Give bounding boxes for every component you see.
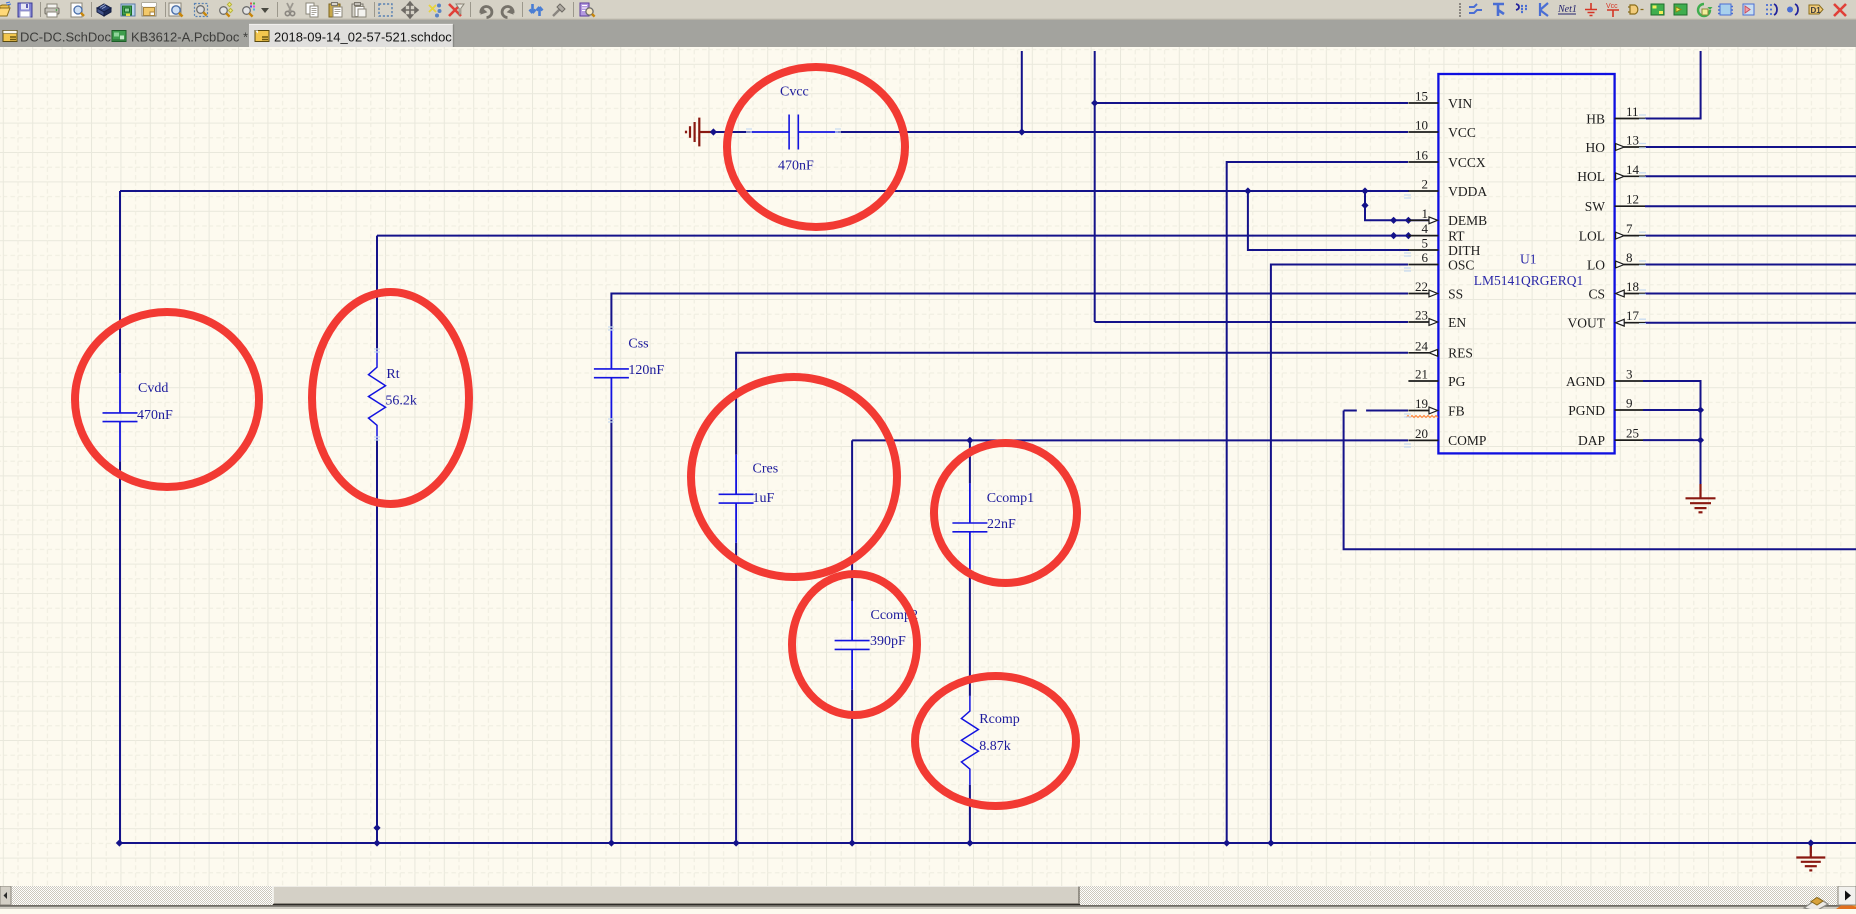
svg-text:19: 19 xyxy=(1415,396,1428,411)
svg-text:Vcc: Vcc xyxy=(1606,3,1618,10)
icon device sheet xyxy=(1698,4,1713,16)
wire right ground stub xyxy=(1810,843,1812,853)
icon pcb doc xyxy=(121,4,135,16)
wire DITH branch from VDDA xyxy=(1248,191,1409,250)
wire EN horizontal xyxy=(1095,321,1408,323)
pin 8 LO output arrow xyxy=(1616,261,1625,268)
pin 1 DEMB xyxy=(1408,219,1429,221)
icon place part harness xyxy=(1540,3,1548,16)
node bus-Cres junction xyxy=(733,839,740,846)
svg-text:LO: LO xyxy=(1587,257,1605,272)
node COMP junction xyxy=(966,437,973,444)
svg-text:7: 7 xyxy=(1626,221,1633,236)
red markup circle around Ccomp2 xyxy=(792,574,917,715)
pin 7 LOL output arrow xyxy=(1616,232,1625,239)
pin 19 FB input arrow xyxy=(1429,407,1438,414)
resistor Rt xyxy=(369,350,386,440)
icon differential pair xyxy=(1809,5,1823,15)
wire COMP horizontal xyxy=(852,439,1408,441)
icon zoom pixels xyxy=(243,3,255,17)
svg-text:KB3612-A.PcbDoc *: KB3612-A.PcbDoc * xyxy=(131,30,248,45)
ground AGND below IC xyxy=(1686,484,1716,512)
svg-text:VCCX: VCCX xyxy=(1448,155,1486,170)
svg-text:HO: HO xyxy=(1586,140,1606,155)
svg-text:PG: PG xyxy=(1448,374,1466,389)
icon harness entry xyxy=(1743,4,1754,15)
pin 20 COMP xyxy=(1408,439,1438,441)
red markup circle around Rcomp xyxy=(915,676,1076,806)
pin 18 CS input arrow xyxy=(1616,290,1625,297)
svg-text:12: 12 xyxy=(1626,192,1639,207)
pin 23 EN input arrow xyxy=(1429,319,1438,326)
svg-text:Rt: Rt xyxy=(386,367,399,382)
node bus-Cvdd junction xyxy=(116,839,123,846)
svg-text:470nF: 470nF xyxy=(778,159,814,174)
wire Rt vertical xyxy=(376,236,378,843)
pin 18 CS xyxy=(1624,293,1645,295)
icon copy xyxy=(306,3,318,17)
svg-text:PGND: PGND xyxy=(1568,403,1605,418)
svg-text:RES: RES xyxy=(1448,346,1473,361)
icon paste special xyxy=(352,3,366,18)
node RT wire dots xyxy=(1390,232,1397,239)
svg-text:21: 21 xyxy=(1415,367,1428,382)
svg-text:6: 6 xyxy=(1422,250,1429,265)
icon sheet entry xyxy=(1674,4,1687,15)
svg-text:Cvdd: Cvdd xyxy=(138,381,168,396)
svg-text:SW: SW xyxy=(1585,199,1606,214)
icon zoom document xyxy=(169,3,183,17)
capacitor Cvcc xyxy=(750,115,838,150)
wire CS to right edge xyxy=(1645,293,1856,295)
pin 9 PGND xyxy=(1615,409,1643,411)
icon break wire xyxy=(429,4,442,18)
node bus-Css junction xyxy=(608,839,615,846)
svg-text:Cres: Cres xyxy=(753,461,779,476)
icon open xyxy=(0,2,11,16)
svg-text:120nF: 120nF xyxy=(628,363,664,378)
bottom-right panel icons xyxy=(1804,898,1828,912)
node Rt wire-end dot above bus xyxy=(373,824,380,831)
wire HO to right edge xyxy=(1645,146,1856,148)
wire RT horizontal xyxy=(377,235,1408,237)
icon redo xyxy=(502,7,514,18)
pin direction triangles xyxy=(1429,144,1624,414)
IC designator and part number xyxy=(1474,251,1584,288)
svg-text:56.2k: 56.2k xyxy=(385,394,417,409)
svg-text:Cvcc: Cvcc xyxy=(780,85,809,100)
icon move xyxy=(402,2,418,18)
svg-text:HOL: HOL xyxy=(1577,169,1605,184)
icon harness connector xyxy=(1718,4,1733,15)
svg-text:11: 11 xyxy=(1626,104,1639,119)
svg-text:VIN: VIN xyxy=(1448,96,1472,111)
wire RES horizontal and Cres vertical xyxy=(736,353,1408,843)
icon wiring tool xyxy=(553,4,565,16)
resistor Rcomp xyxy=(961,696,978,785)
pin 21 PG xyxy=(1408,380,1438,382)
wire VOUT to right edge xyxy=(1645,322,1856,324)
pin 17 VOUT input arrow xyxy=(1616,319,1625,326)
wire Cvdd vertical xyxy=(119,191,121,843)
wire HB to top xyxy=(1645,51,1701,119)
svg-text:COMP: COMP xyxy=(1448,433,1486,448)
svg-text:9: 9 xyxy=(1626,396,1633,411)
svg-text:470nF: 470nF xyxy=(137,408,173,423)
icon print preview xyxy=(71,3,84,17)
svg-text:25: 25 xyxy=(1626,426,1639,441)
pin 7 LOL xyxy=(1624,235,1645,237)
tab 1 icon schdoc xyxy=(3,31,17,42)
svg-text:VDDA: VDDA xyxy=(1448,184,1487,199)
pin 6 OSC xyxy=(1408,264,1438,266)
pale blue hotspot marks xyxy=(374,115,1646,447)
svg-text:DEMB: DEMB xyxy=(1448,213,1487,228)
node bus-Ccomp2 junction xyxy=(849,839,856,846)
wire VCCX horizontal and vertical to ground bus xyxy=(1227,162,1408,843)
icon device view xyxy=(97,4,111,16)
pin 5 DITH xyxy=(1408,249,1438,251)
icon signal source brace xyxy=(1787,4,1798,15)
svg-text:24: 24 xyxy=(1415,338,1429,353)
node DAP junction xyxy=(1697,437,1704,444)
pin 25 DAP xyxy=(1615,439,1643,441)
svg-text:2: 2 xyxy=(1422,177,1429,192)
pin 1 DEMB input arrow xyxy=(1429,217,1438,224)
wire Ccomp2 vertical xyxy=(851,440,853,843)
svg-text:SS: SS xyxy=(1448,286,1463,301)
ground at right end of bus xyxy=(1796,845,1825,870)
svg-text:390pF: 390pF xyxy=(870,634,906,649)
wire SW to right edge xyxy=(1645,205,1856,207)
icon dropdown arrow xyxy=(261,8,269,13)
pin 24 RES output arrow xyxy=(1429,349,1438,356)
wire LO to right edge xyxy=(1645,264,1856,266)
svg-text:8: 8 xyxy=(1626,250,1633,265)
icon place signal harness xyxy=(1516,4,1527,12)
application toolbar xyxy=(0,0,1856,20)
left arrow button xyxy=(0,886,11,905)
wire ground bus horizontal xyxy=(119,842,1856,844)
svg-text:LOL: LOL xyxy=(1579,228,1605,243)
svg-text:HB: HB xyxy=(1586,111,1605,126)
svg-text:18: 18 xyxy=(1626,279,1639,294)
svg-text:AGND: AGND xyxy=(1566,374,1605,389)
svg-text:13: 13 xyxy=(1626,133,1639,148)
pin 2 VDDA xyxy=(1408,190,1438,192)
svg-text:10: 10 xyxy=(1415,118,1428,133)
icon cut xyxy=(285,3,294,16)
icon updown hierarchy xyxy=(530,4,543,16)
icon browse library xyxy=(580,3,595,17)
capacitor Cres xyxy=(719,455,754,543)
svg-text:Net1: Net1 xyxy=(1557,4,1577,15)
wire OSC horizontal and vertical to ground bus xyxy=(1271,265,1408,844)
capacitor Ccomp2 xyxy=(835,601,870,690)
bottom status strip xyxy=(0,905,1856,907)
pin 23 EN xyxy=(1408,321,1429,323)
svg-text:Rcomp: Rcomp xyxy=(979,712,1019,727)
pin 14 HOL output arrow xyxy=(1616,173,1625,180)
svg-text:4: 4 xyxy=(1422,221,1429,236)
svg-text:VOUT: VOUT xyxy=(1568,316,1606,331)
node bus-Rt junction xyxy=(373,839,380,846)
scrollbar thumb xyxy=(273,886,1079,904)
wire VDDA horizontal xyxy=(120,190,1409,192)
node VIN tap xyxy=(1091,99,1098,106)
right group separator dots xyxy=(1459,3,1461,17)
icon bus entry brace xyxy=(1766,4,1777,15)
wire VCC net horizontal xyxy=(711,131,1408,133)
pin 13 HO output arrow xyxy=(1616,144,1625,151)
icon place gnd xyxy=(1585,3,1597,16)
icon no erc xyxy=(1834,4,1846,16)
icon zoom selected xyxy=(220,2,233,16)
svg-text:5: 5 xyxy=(1422,236,1429,251)
pin 13 HO xyxy=(1624,146,1645,148)
pin 11 HB xyxy=(1615,118,1645,120)
pin 8 LO xyxy=(1624,264,1645,266)
node DEMB wire dots xyxy=(1390,217,1397,224)
svg-text:LM5141QRGERQ1: LM5141QRGERQ1 xyxy=(1474,273,1584,288)
capacitor Cvdd xyxy=(103,373,138,461)
wire PGND xyxy=(1643,409,1701,411)
svg-text:EN: EN xyxy=(1448,315,1466,330)
pin stubs left side (black) xyxy=(1408,103,1438,440)
pin 16 VCCX xyxy=(1408,161,1438,163)
pin 17 VOUT xyxy=(1624,322,1645,324)
red markup circle around Cvdd xyxy=(75,312,259,487)
red markup circle around Rt xyxy=(312,292,469,504)
icon print xyxy=(45,4,59,17)
icon documents panel xyxy=(142,3,156,16)
svg-text:RT: RT xyxy=(1448,228,1465,243)
icon sheet symbol xyxy=(1651,4,1664,15)
node bus-Rcomp junction xyxy=(966,839,973,846)
svg-text:CS: CS xyxy=(1588,286,1605,301)
schematic text xyxy=(1448,96,1606,448)
svg-text:Css: Css xyxy=(628,337,648,352)
node VCC-ground junction xyxy=(710,128,717,135)
node VDDA-DITH tap xyxy=(1244,187,1251,194)
svg-text:U1: U1 xyxy=(1520,251,1537,266)
active tab background xyxy=(249,24,453,47)
svg-text:FB: FB xyxy=(1448,403,1465,418)
track xyxy=(0,886,1856,905)
pin 12 SW xyxy=(1615,205,1645,207)
right arrow button xyxy=(1838,886,1856,905)
wire Ccomp1 Rcomp vertical chain xyxy=(969,440,971,843)
pin 22 SS xyxy=(1408,293,1429,295)
svg-text:23: 23 xyxy=(1415,308,1428,323)
node VCC top tap xyxy=(1018,128,1025,135)
icon zoom area xyxy=(195,4,208,17)
red markup circle around Ccomp1 xyxy=(934,443,1077,583)
pin 4 RT xyxy=(1408,235,1438,237)
svg-text:20: 20 xyxy=(1415,426,1428,441)
node bus-VCCX junction xyxy=(1223,839,1230,846)
node bus-ground junction xyxy=(1807,839,1814,846)
pin stubs right side (black) xyxy=(1615,119,1645,441)
node DEMB branch mid dot xyxy=(1361,202,1368,209)
svg-text:14: 14 xyxy=(1626,162,1640,177)
svg-text:Ccomp1: Ccomp1 xyxy=(987,491,1034,506)
capacitor Css xyxy=(594,329,629,418)
pin 3 AGND xyxy=(1615,380,1643,382)
wire DAP xyxy=(1643,439,1701,441)
wire EN vertical from top xyxy=(1094,51,1096,322)
wire FB net with gap xyxy=(1344,410,1408,412)
svg-text:3: 3 xyxy=(1626,367,1633,382)
wire SS horizontal and Css vertical xyxy=(611,294,1408,844)
svg-text:8.87k: 8.87k xyxy=(979,739,1011,754)
pin 15 VIN xyxy=(1408,102,1438,104)
wire VCC top vertical drop xyxy=(1021,51,1023,132)
node PGND junction xyxy=(1697,406,1704,413)
svg-text:17: 17 xyxy=(1626,308,1640,323)
tab 3 icon schdoc active xyxy=(255,31,269,42)
op-amp U1 IC body LM5141QRGERQ1 xyxy=(1438,74,1614,453)
node VDDA-DEMB tap xyxy=(1361,187,1368,194)
icon place vcc xyxy=(1606,3,1619,17)
svg-text:DAP: DAP xyxy=(1578,433,1605,448)
svg-text:22: 22 xyxy=(1415,279,1428,294)
icon net label xyxy=(1557,4,1577,15)
svg-text:22nF: 22nF xyxy=(987,517,1016,532)
svg-text:1: 1 xyxy=(1422,206,1429,221)
node bus-OSC junction xyxy=(1267,839,1274,846)
svg-text:DITH: DITH xyxy=(1448,243,1480,258)
orange compile-error squiggle under FB pin xyxy=(1406,416,1438,418)
svg-text:15: 15 xyxy=(1415,89,1428,104)
pin 10 VCC xyxy=(1408,131,1438,133)
icon undo xyxy=(480,7,492,18)
svg-text:VCC: VCC xyxy=(1448,125,1476,140)
icon save xyxy=(18,3,32,17)
icon paste xyxy=(329,3,342,18)
pin 14 HOL xyxy=(1624,175,1645,177)
pin 19 FB xyxy=(1408,410,1429,412)
icon place part xyxy=(1628,5,1644,14)
svg-text:OSC: OSC xyxy=(1448,257,1474,272)
wire AGND to ground xyxy=(1643,381,1701,484)
wire FB vertical and long horizontal to right edge xyxy=(1344,411,1856,550)
power ground left of Cvcc xyxy=(686,118,711,147)
icon clear filter xyxy=(449,4,464,16)
svg-text:16: 16 xyxy=(1415,148,1429,163)
horizontal scrollbar xyxy=(0,886,1856,909)
red markup circle around Cvcc xyxy=(727,67,905,227)
pin 24 RES xyxy=(1408,352,1429,354)
icon place wire xyxy=(1469,4,1482,13)
red markup circle around Cres xyxy=(691,377,897,577)
wire DEMB branch from VDDA xyxy=(1365,191,1429,220)
svg-text:2018-09-14_02-57-521.schdoc: 2018-09-14_02-57-521.schdoc xyxy=(274,30,452,45)
svg-text:D1: D1 xyxy=(1811,6,1822,15)
wire LOL to right edge xyxy=(1645,235,1856,237)
document tab bar xyxy=(0,20,1856,47)
wire HOL to right edge xyxy=(1645,175,1856,177)
svg-text:DC-DC.SchDoc: DC-DC.SchDoc xyxy=(20,30,112,45)
icon place bus xyxy=(1493,4,1504,16)
icon selection rect xyxy=(379,4,392,16)
tab 2 icon pcbdoc xyxy=(112,31,126,42)
capacitor Ccomp1 xyxy=(952,483,987,571)
wire VIN horizontal xyxy=(1095,102,1408,104)
svg-text:1uF: 1uF xyxy=(753,491,775,506)
pin 22 SS input arrow xyxy=(1429,290,1438,297)
